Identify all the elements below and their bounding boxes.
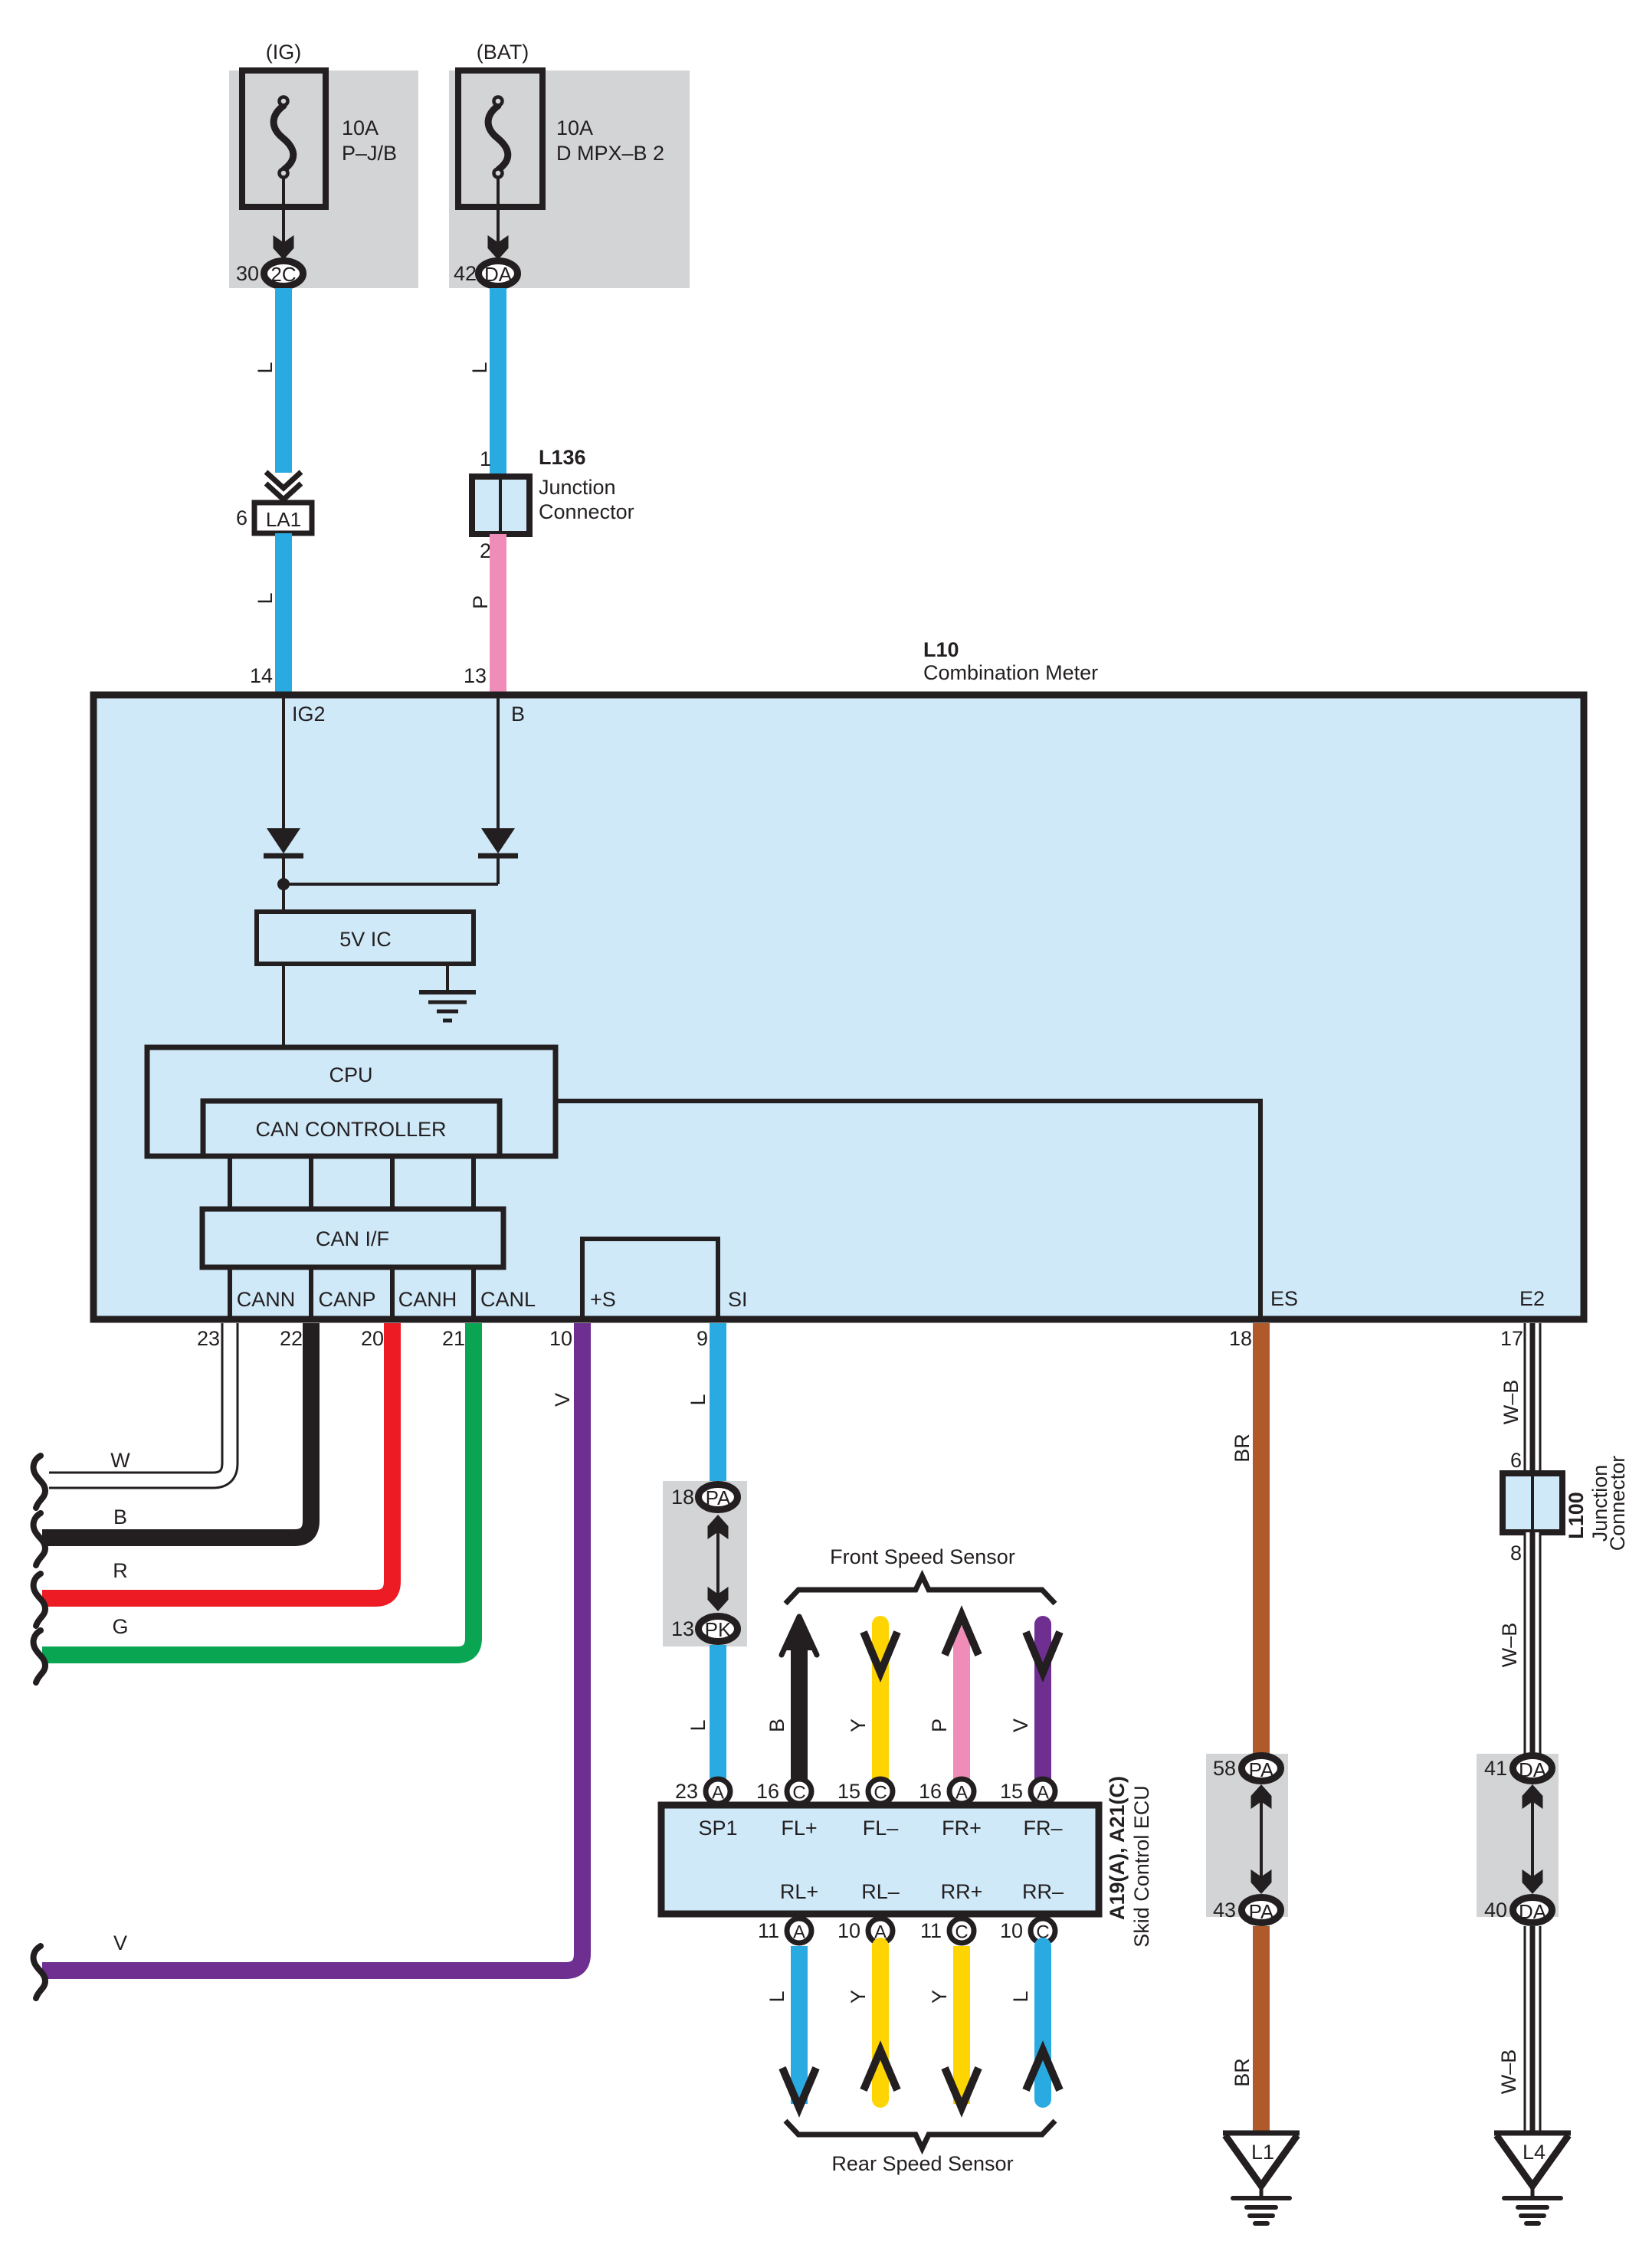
svg-text:R: R xyxy=(113,1559,128,1582)
connector circle C xyxy=(949,1918,974,1943)
svg-text:2: 2 xyxy=(480,539,491,562)
svg-text:(IG): (IG) xyxy=(266,41,302,64)
connector circle A xyxy=(949,1779,974,1804)
svg-text:RR–: RR– xyxy=(1022,1880,1064,1903)
arrow between PA and PA xyxy=(1251,1784,1272,1894)
svg-text:L: L xyxy=(765,1991,788,2002)
connector circle C xyxy=(787,1779,811,1804)
svg-text:C: C xyxy=(874,1783,887,1804)
svg-text:15: 15 xyxy=(837,1780,860,1803)
arrow from fuse (IG) to connector 2C xyxy=(274,179,294,260)
wire Y (yellow) rear left with up chevron xyxy=(864,1946,897,2099)
connector circle A xyxy=(787,1918,811,1943)
svg-text:W: W xyxy=(110,1449,130,1472)
skid control ECU A19(A), A21(C) box xyxy=(661,1805,1099,1914)
svg-text:L136: L136 xyxy=(539,446,586,469)
wire Y (yellow) front left with down chevron xyxy=(864,1624,897,1780)
svg-text:A: A xyxy=(955,1783,968,1804)
svg-text:Front Speed Sensor: Front Speed Sensor xyxy=(830,1545,1015,1568)
svg-text:8: 8 xyxy=(1510,1542,1522,1565)
connector circle C xyxy=(1031,1918,1055,1943)
wire from D2 to junction xyxy=(497,856,500,884)
CPU box xyxy=(147,1047,556,1156)
connector oval PA xyxy=(1242,1898,1281,1924)
svg-text:L: L xyxy=(254,592,277,604)
connector oval DA xyxy=(1513,1898,1552,1924)
wire line 2 xyxy=(309,1156,313,1209)
svg-text:17: 17 xyxy=(1500,1327,1523,1350)
svg-text:L: L xyxy=(687,1719,710,1731)
svg-text:Connector: Connector xyxy=(1606,1456,1629,1551)
junction dot xyxy=(277,878,290,890)
+S internal box xyxy=(582,1239,718,1319)
5V IC box xyxy=(257,912,474,964)
svg-text:SI: SI xyxy=(728,1288,748,1311)
svg-text:W–B: W–B xyxy=(1500,1380,1523,1425)
terminal separator at CANP xyxy=(309,1267,313,1319)
shaded area PA/PK connectors xyxy=(663,1481,747,1646)
wire CPU to ES xyxy=(556,1101,1260,1319)
wire V curl end xyxy=(34,1946,45,1998)
svg-text:58: 58 xyxy=(1213,1757,1236,1780)
fuse block shaded area (IG) xyxy=(229,70,418,288)
wire IG2 internal xyxy=(282,696,285,830)
wire line 3 xyxy=(390,1156,395,1209)
svg-text:P: P xyxy=(928,1719,951,1732)
wire B curl end xyxy=(34,1513,45,1565)
svg-text:11: 11 xyxy=(920,1919,942,1942)
arrow from fuse (BAT) to connector DA xyxy=(488,179,509,260)
svg-text:2C: 2C xyxy=(270,263,296,286)
terminal separator at CANH xyxy=(390,1267,395,1319)
svg-text:L: L xyxy=(254,362,277,373)
fuse block shaded area (BAT) xyxy=(449,70,690,288)
svg-text:23: 23 xyxy=(197,1327,220,1350)
svg-text:L: L xyxy=(1009,1991,1032,2002)
svg-text:Rear Speed Sensor: Rear Speed Sensor xyxy=(831,2152,1013,2175)
wire L (blue) SI from pin 9 xyxy=(710,1323,726,1497)
wire L (blue) from DA to L136 pin 1 xyxy=(490,288,506,477)
front sensor brace xyxy=(785,1576,1055,1604)
wire G (green) from pin 21 xyxy=(42,1323,474,1655)
wire L (blue) rear left with down chevron xyxy=(782,1946,816,2108)
connector circle A xyxy=(868,1918,893,1943)
svg-text:A: A xyxy=(712,1783,724,1804)
svg-text:43: 43 xyxy=(1213,1899,1236,1922)
wire W-B from L100 to DA xyxy=(1524,1532,1542,1755)
diode D1 xyxy=(264,828,303,856)
svg-text:CANP: CANP xyxy=(318,1288,375,1311)
svg-text:Combination Meter: Combination Meter xyxy=(923,661,1098,684)
ground L1 xyxy=(1223,2133,1300,2223)
svg-text:CANL: CANL xyxy=(480,1288,536,1311)
svg-text:30: 30 xyxy=(236,262,259,285)
svg-text:Skid Control ECU: Skid Control ECU xyxy=(1130,1785,1153,1948)
ground L4 xyxy=(1494,2133,1571,2223)
svg-text:1: 1 xyxy=(480,447,491,470)
svg-text:21: 21 xyxy=(442,1327,465,1350)
wire Y (yellow) rear right with down chevron xyxy=(945,1946,978,2108)
wire V (violet) front right with down chevron xyxy=(1026,1624,1060,1780)
svg-text:Connector: Connector xyxy=(539,500,634,523)
svg-text:L100: L100 xyxy=(1565,1492,1588,1539)
connector oval PA xyxy=(1242,1756,1281,1782)
svg-text:E2: E2 xyxy=(1519,1287,1545,1310)
svg-text:Y: Y xyxy=(847,1719,870,1732)
wire B (black) from pin 22 xyxy=(42,1323,311,1538)
wire L (blue) PK to SP1 xyxy=(710,1645,726,1778)
svg-text:PA: PA xyxy=(706,1486,731,1509)
svg-text:15: 15 xyxy=(1000,1780,1023,1803)
svg-text:LA1: LA1 xyxy=(266,508,301,531)
svg-text:18: 18 xyxy=(1229,1327,1252,1350)
svg-text:41: 41 xyxy=(1484,1757,1507,1780)
svg-text:13: 13 xyxy=(464,664,487,687)
svg-text:P: P xyxy=(469,595,492,609)
wire W-B from pin 17 to L100 xyxy=(1524,1323,1542,1476)
wire line 4 xyxy=(471,1156,476,1209)
wire junction horizontal xyxy=(284,883,498,886)
svg-text:10A: 10A xyxy=(556,116,593,139)
connector LA1 xyxy=(254,503,312,533)
svg-text:RL+: RL+ xyxy=(780,1880,818,1903)
svg-text:14: 14 xyxy=(250,664,273,687)
terminal separator at CANL xyxy=(471,1267,476,1319)
svg-text:BR: BR xyxy=(1231,1433,1254,1463)
terminal separator at CANN xyxy=(228,1267,232,1319)
shaded area DA/DA connectors xyxy=(1477,1754,1559,1917)
svg-text:B: B xyxy=(113,1506,127,1529)
wire L (blue) from 2C to chevron xyxy=(275,288,292,473)
wire 5V IC to ground xyxy=(446,964,449,991)
svg-text:PK: PK xyxy=(705,1618,732,1641)
arrow between DA and DA xyxy=(1523,1784,1543,1894)
svg-text:FR+: FR+ xyxy=(942,1817,982,1840)
svg-text:W–B: W–B xyxy=(1497,2049,1520,2095)
svg-text:Y: Y xyxy=(847,1990,870,2004)
svg-text:CPU: CPU xyxy=(329,1063,372,1086)
svg-text:22: 22 xyxy=(280,1327,303,1350)
svg-text:20: 20 xyxy=(361,1327,384,1350)
svg-text:C: C xyxy=(955,1922,968,1943)
svg-text:10A: 10A xyxy=(342,116,379,139)
svg-text:L4: L4 xyxy=(1523,2141,1545,2164)
CAN I/F box xyxy=(202,1209,503,1267)
connector oval DA xyxy=(1513,1756,1552,1782)
svg-text:V: V xyxy=(113,1932,127,1954)
svg-text:6: 6 xyxy=(236,506,247,529)
svg-text:V: V xyxy=(1009,1719,1032,1732)
svg-text:RL–: RL– xyxy=(861,1880,900,1903)
wire P (pink) from L136 to pin 13 xyxy=(490,534,506,693)
svg-text:A: A xyxy=(1037,1783,1049,1804)
svg-text:6: 6 xyxy=(1510,1449,1522,1472)
svg-text:L1: L1 xyxy=(1251,2141,1274,2164)
svg-text:13: 13 xyxy=(671,1617,694,1640)
svg-text:L: L xyxy=(468,362,491,373)
fuse 10A P-J/B xyxy=(242,70,326,207)
diode D2 xyxy=(478,828,518,856)
svg-text:CAN CONTROLLER: CAN CONTROLLER xyxy=(255,1118,446,1141)
wire L (blue) from LA1 to pin 14 xyxy=(275,533,292,693)
svg-text:DA: DA xyxy=(484,263,513,286)
shaded area PA/PA connectors xyxy=(1206,1754,1288,1917)
svg-text:Junction: Junction xyxy=(539,476,616,499)
wire P (pink) front right with up chevron xyxy=(945,1615,978,1780)
svg-text:CANH: CANH xyxy=(398,1288,457,1311)
junction connector L136 xyxy=(472,477,529,534)
wire W-B from DA to ground L4 xyxy=(1524,1926,1542,2132)
svg-text:40: 40 xyxy=(1484,1899,1507,1922)
svg-text:Y: Y xyxy=(928,1990,951,2004)
rear sensor brace xyxy=(785,2121,1055,2148)
connector circle A xyxy=(706,1779,730,1804)
wire G curl end xyxy=(34,1630,45,1683)
wire from D1 to junction xyxy=(282,856,285,912)
svg-text:A: A xyxy=(793,1922,805,1943)
svg-text:CAN I/F: CAN I/F xyxy=(316,1227,389,1250)
connector oval PA xyxy=(699,1485,738,1510)
svg-text:G: G xyxy=(112,1615,128,1638)
CAN CONTROLLER box xyxy=(203,1101,500,1156)
wire 5V IC to CPU xyxy=(282,964,285,1047)
wire B internal xyxy=(497,696,500,830)
wire B (black) front left speed sensor with up arrow xyxy=(782,1614,817,1780)
svg-text:W–B: W–B xyxy=(1498,1623,1521,1668)
svg-text:B: B xyxy=(765,1719,788,1732)
svg-text:FR–: FR– xyxy=(1023,1817,1062,1840)
wire CAN controller to CAN I/F line 1 xyxy=(228,1156,232,1209)
wire L (blue) rear right with up chevron xyxy=(1026,1946,1060,2099)
svg-text:L10: L10 xyxy=(923,638,959,661)
connector circle C xyxy=(868,1779,893,1804)
svg-text:+S: +S xyxy=(590,1288,616,1311)
svg-text:FL+: FL+ xyxy=(781,1817,817,1840)
wire BR (brown) to ground L1 xyxy=(1253,1926,1270,2132)
svg-text:PA: PA xyxy=(1249,1758,1274,1781)
svg-text:10: 10 xyxy=(549,1327,572,1350)
wire W curl end xyxy=(34,1456,45,1508)
svg-text:D MPX–B 2: D MPX–B 2 xyxy=(556,142,664,165)
svg-text:SP1: SP1 xyxy=(698,1817,737,1840)
svg-text:5V IC: 5V IC xyxy=(339,928,392,951)
svg-text:PA: PA xyxy=(1249,1900,1274,1923)
svg-text:(BAT): (BAT) xyxy=(477,41,529,64)
svg-text:BR: BR xyxy=(1231,2058,1254,2087)
wire W (white) from pin 23 xyxy=(48,1323,230,1480)
svg-text:C: C xyxy=(792,1783,805,1804)
svg-text:10: 10 xyxy=(837,1919,860,1942)
svg-text:DA: DA xyxy=(1519,1900,1547,1923)
internal ground symbol xyxy=(419,992,476,1021)
svg-text:ES: ES xyxy=(1270,1287,1298,1310)
svg-text:23: 23 xyxy=(675,1780,698,1803)
wire R curl end xyxy=(34,1574,45,1626)
svg-text:16: 16 xyxy=(756,1780,779,1803)
connector oval DA xyxy=(479,261,518,287)
svg-text:V: V xyxy=(551,1393,574,1407)
connector circle A xyxy=(1031,1779,1055,1804)
svg-text:RR+: RR+ xyxy=(941,1880,983,1903)
double chevron into LA1 xyxy=(266,472,301,500)
svg-text:16: 16 xyxy=(919,1780,942,1803)
svg-text:DA: DA xyxy=(1519,1758,1547,1781)
wire BR (brown) from pin 18 xyxy=(1253,1323,1270,1754)
junction connector L100 xyxy=(1503,1473,1562,1532)
svg-text:42: 42 xyxy=(454,262,477,285)
arrow between PA and PK xyxy=(708,1515,729,1611)
svg-text:L: L xyxy=(687,1394,710,1405)
wire V (violet) from pin 10 xyxy=(42,1323,582,1971)
svg-text:P–J/B: P–J/B xyxy=(342,142,397,165)
svg-text:10: 10 xyxy=(1000,1919,1023,1942)
wire R (red) from pin 20 xyxy=(42,1323,392,1598)
fuse 10A D MPX-B 2 xyxy=(458,70,542,207)
svg-text:11: 11 xyxy=(758,1919,779,1942)
svg-text:CANN: CANN xyxy=(237,1288,296,1311)
svg-text:9: 9 xyxy=(697,1327,708,1350)
svg-text:B: B xyxy=(511,703,525,726)
svg-text:A19(A), A21(C): A19(A), A21(C) xyxy=(1106,1776,1129,1920)
connector oval 2C xyxy=(264,261,303,287)
svg-text:18: 18 xyxy=(671,1486,694,1509)
combination meter L10 box xyxy=(93,695,1584,1319)
svg-text:FL–: FL– xyxy=(863,1817,899,1840)
connector oval PK xyxy=(699,1617,738,1642)
svg-text:IG2: IG2 xyxy=(292,703,326,726)
